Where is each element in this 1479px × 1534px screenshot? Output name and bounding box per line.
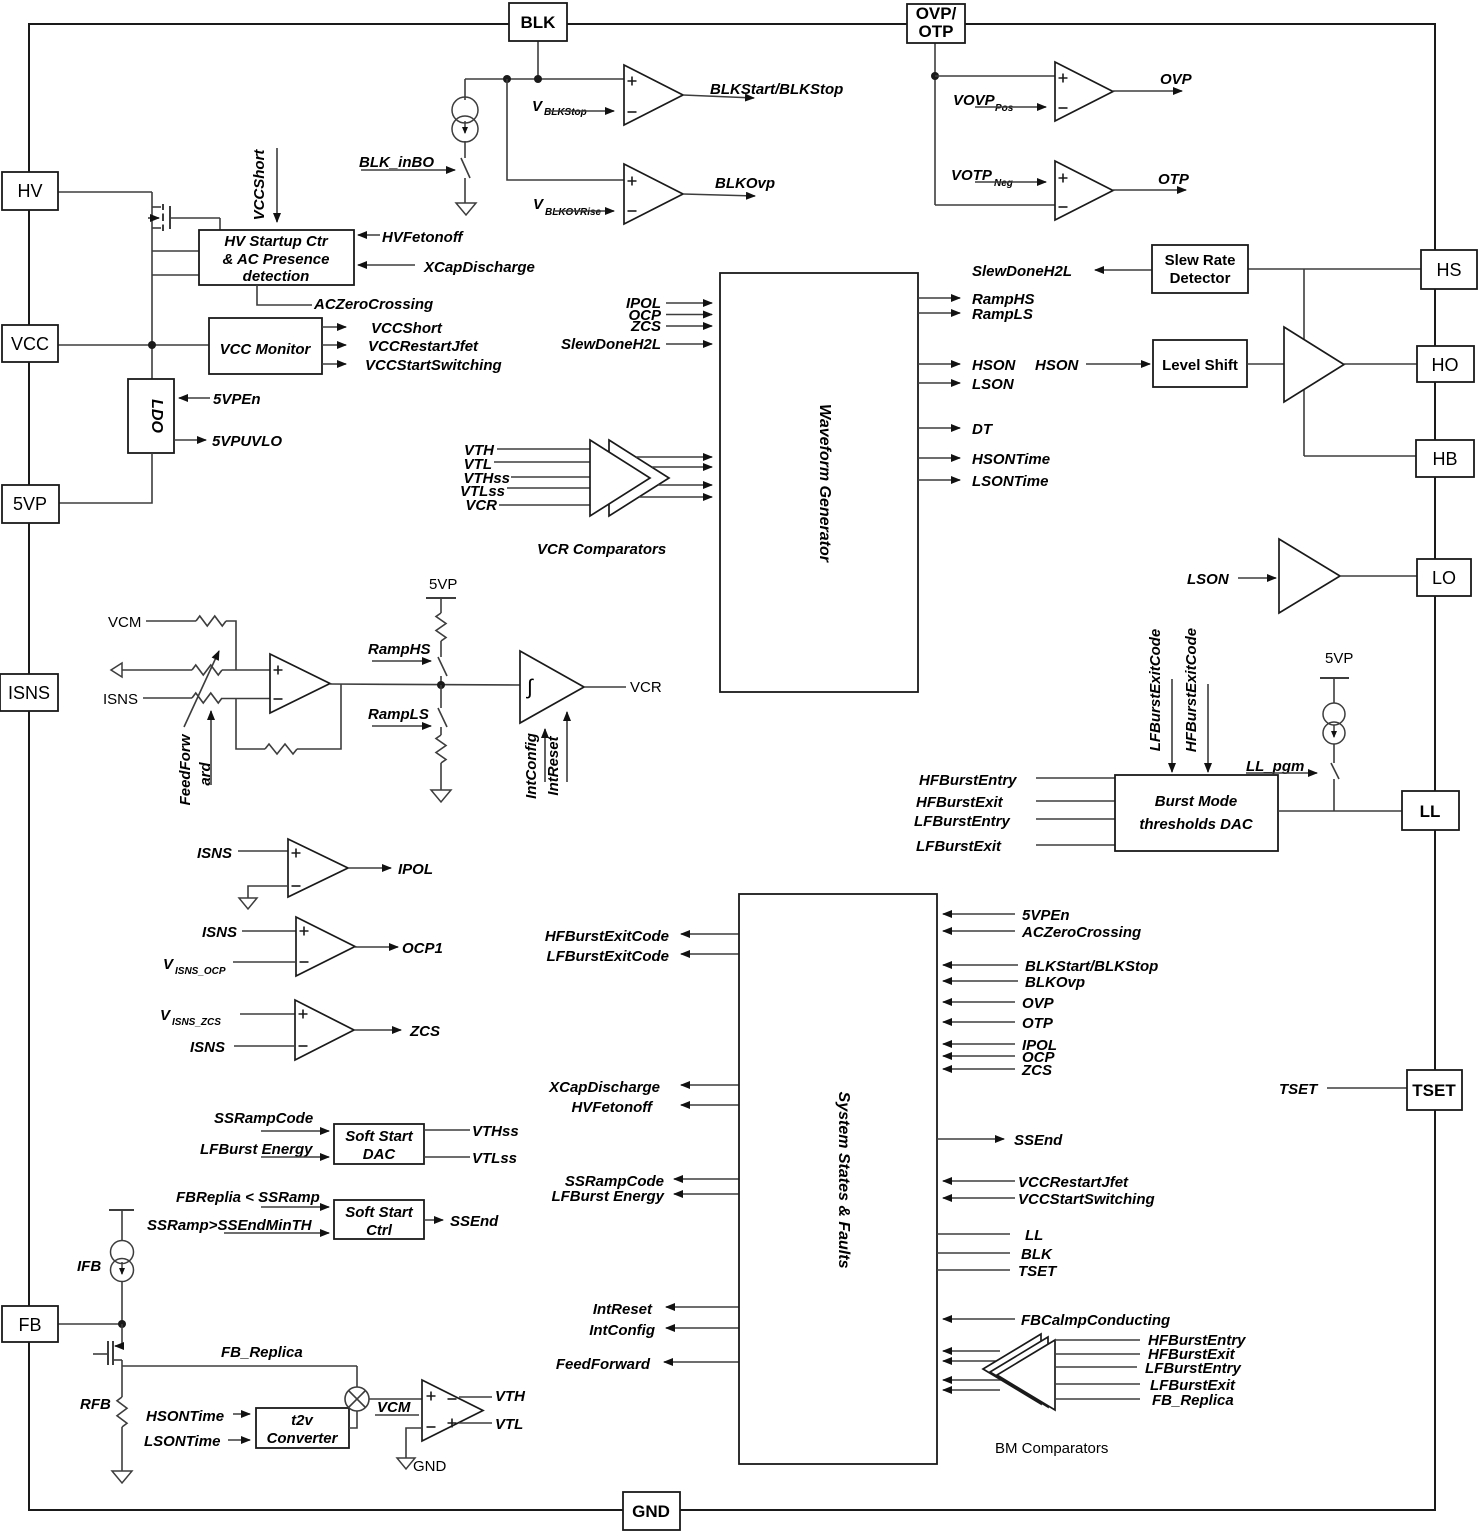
wire BLKOvp input [943,980,1018,982]
resistor R_VCM [196,616,226,626]
comparator U12 VTH VTL window [422,1380,483,1441]
junction BLK bus at pin drop [534,75,542,83]
wire FeedForward output [664,1361,739,1363]
wire ACZeroCrossing input [943,930,1015,932]
svg-text:HB: HB [1432,449,1457,469]
ground below BLK switch [456,203,476,215]
svg-text:GND: GND [413,1458,447,1475]
wire HO driver output to HO pin [1344,363,1417,365]
svg-text:IntReset: IntReset [545,735,562,795]
svg-text:ACZeroCrossing: ACZeroCrossing [1021,924,1141,941]
svg-text:Detector: Detector [1170,270,1231,287]
svg-text:VCCStartSwitching: VCCStartSwitching [365,357,502,374]
pin BLK [509,3,567,41]
svg-text:Converter: Converter [267,1430,339,1447]
label HVFetonoff input arrow [358,234,380,236]
svg-text:Burst Mode: Burst Mode [1155,793,1238,810]
wire OVP/OTP pin down [934,43,936,205]
wire rail to HV Startup block y=251 [152,250,199,252]
integrator U8 with integral sign [520,651,584,723]
svg-text:VCC: VCC [11,334,49,354]
wire to OTP comparator inverting input [935,204,1055,206]
wire LFBurstExitCode output [681,953,739,955]
wire branch down to BLKOvp comparator [507,79,624,180]
block LDO [128,379,174,453]
svg-text:BLKOVRise: BLKOVRise [545,207,602,218]
svg-text:XCapDischarge: XCapDischarge [548,1079,660,1096]
pin HV [2,172,58,210]
wire ZCS input [943,1068,1015,1070]
wire VCC Monitor output VCCStartSwitching [322,363,346,365]
svg-text:RampHS: RampHS [368,641,431,658]
svg-text:5VP: 5VP [1325,650,1353,667]
pin LL [1402,791,1459,830]
svg-text:ZCS: ZCS [1021,1062,1052,1079]
svg-text:LDO: LDO [148,399,165,433]
wire switch to LL bus [1333,779,1335,811]
wire ZCS output [354,1029,401,1031]
svg-text:5VP: 5VP [13,494,47,514]
block HV Startup Ctr and AC Presence detection [199,230,354,285]
svg-text:VCM: VCM [377,1399,411,1416]
wire IntConfig output [666,1327,739,1329]
svg-text:RampLS: RampLS [368,706,429,723]
wire IntReset output [666,1306,739,1308]
svg-text:LSON: LSON [972,376,1015,393]
wire switch to resistor [440,727,442,735]
svg-text:RampLS: RampLS [972,306,1033,323]
svg-text:HO: HO [1432,355,1459,375]
svg-text:OCP1: OCP1 [402,940,443,957]
wire IPOL input to waveform generator [666,302,712,304]
svg-text:BLKOvp: BLKOvp [1025,974,1085,991]
comparator U11 ZCS [295,1000,354,1060]
wire DT output [918,427,960,429]
svg-text:LFBurstExit: LFBurstExit [916,838,1002,855]
wire OTP output [1113,189,1186,191]
ground below RFB [112,1471,132,1483]
svg-text:5VPUVLO: 5VPUVLO [212,433,282,450]
wire noninverting path [122,669,192,671]
svg-text:VCCStartSwitching: VCCStartSwitching [1018,1191,1155,1208]
wire VTH output [459,1396,492,1398]
svg-text:BLK: BLK [1021,1246,1053,1263]
comparator U3 OVP [1055,62,1113,121]
wire current source to switch [464,141,466,158]
wire to OVP comparator non-inverting input [935,75,1055,77]
supply bar 5VP [426,597,456,599]
svg-text:Waveform Generator: Waveform Generator [816,404,833,563]
current source LL_pgm [1323,703,1345,725]
svg-text:ISNS: ISNS [190,1039,225,1056]
svg-text:VTH: VTH [495,1388,526,1405]
block Slew Rate Detector [1152,245,1248,293]
wire LO driver output to LO pin [1340,575,1417,577]
svg-text:ISNS_OCP: ISNS_OCP [175,966,226,977]
svg-text:BLKStart/BLKStop: BLKStart/BLKStop [710,81,843,98]
wire FB_Replica net [122,1365,357,1367]
block Burst Mode thresholds DAC [1115,775,1278,851]
svg-text:HSON: HSON [1035,357,1080,374]
wire rail to HV Startup block y=275 [152,274,199,276]
svg-text:LFBurstExitCode: LFBurstExitCode [1147,629,1164,752]
resistor RFB [117,1397,127,1427]
svg-text:FeedForw: FeedForw [177,733,194,805]
wire BLK pin down to bus [537,41,539,79]
wire bar to current source [121,1210,123,1241]
wire current source to FB node [121,1281,123,1324]
wire SSRampCode output [674,1178,739,1180]
wire ZCS input to waveform generator [666,325,712,327]
junction BLK bus at comparator branch [503,75,511,83]
wire LFBurstEntry input to BM comparators [1056,1366,1137,1368]
wire XCapDischarge output [681,1084,739,1086]
svg-text:IntConfig: IntConfig [589,1322,655,1339]
wire ISNS to resistor [143,697,192,699]
wire TSET input [937,1269,1010,1271]
wire OVP input [943,1001,1015,1003]
multiplier node [345,1387,369,1411]
svg-text:OTP: OTP [1022,1015,1054,1032]
svg-text:FBCalmpConducting: FBCalmpConducting [1021,1312,1170,1329]
wire resistor to opamp - [222,698,270,700]
junction FB node [118,1320,126,1328]
buffer U5 HO driver [1284,327,1344,402]
wire OVP output [1113,90,1182,92]
comparator stack VCR Comparators front triangle [590,440,650,516]
svg-text:HFBurstExit: HFBurstExit [916,794,1004,811]
svg-text:Level Shift: Level Shift [1162,357,1238,374]
feedback loop wire [236,699,265,749]
svg-text:TSET: TSET [1412,1081,1456,1100]
svg-text:Soft Start: Soft Start [345,1204,414,1221]
svg-text:Pos: Pos [995,103,1014,114]
wire LFBurst Energy output [674,1193,739,1195]
wire BLKStart/BLKStop output [683,95,754,98]
svg-text:5VPEn: 5VPEn [213,391,261,408]
wire ACZeroCrossing from block bottom [257,285,312,305]
resistor R_rampHS [436,613,446,641]
svg-text:LSON: LSON [1187,571,1230,588]
svg-text:HV Startup Ctr: HV Startup Ctr [224,233,329,250]
svg-text:GND: GND [632,1502,670,1521]
wire LSON output [918,382,960,384]
buffer U6 LO driver [1279,539,1340,613]
svg-text:VCCRestartJfet: VCCRestartJfet [1018,1174,1129,1191]
svg-text:RFB: RFB [80,1396,111,1413]
svg-text:OVP: OVP [1160,71,1193,88]
svg-text:VCCRestartJfet: VCCRestartJfet [368,338,479,355]
pin 5VP [2,485,59,523]
comparator stack BM Comparators [983,1334,1041,1404]
label XCapDischarge input arrow [358,264,415,266]
wire IPOL input [943,1043,1015,1045]
wire HS branch down to HB [1303,269,1305,456]
wire LFBurstExit input to BM comparators [1056,1383,1140,1385]
svg-text:HSON: HSON [972,357,1017,374]
svg-text:OVP/: OVP/ [916,4,957,23]
wire IPOL output [348,867,391,869]
supply bar 5VP LL [1320,677,1349,679]
wire OCP1 output [355,946,398,948]
comparator U10 OCP1 [296,917,355,976]
wire HFBurstEntry input to BM comparators [1056,1339,1140,1341]
svg-text:BLK_inBO: BLK_inBO [359,154,434,171]
ground at VTH comparator [397,1458,415,1469]
svg-text:Ctrl: Ctrl [366,1222,393,1239]
wire LDO output 5VPUVLO [174,439,206,441]
wire HS pin bus [1248,268,1421,270]
wire VCC Monitor output VCCRestartJfet [322,344,346,346]
wire VCC Monitor output VCCShort [322,326,346,328]
wire BLKStart/BLKStop input [943,964,1018,966]
wire VCCStartSwitching input [943,1197,1015,1199]
comparator stack VCR Comparators back triangle [609,440,669,516]
svg-text:BLK: BLK [521,13,557,32]
resistor R_rampLS [436,735,446,763]
switch RampHS [438,657,447,676]
svg-text:& AC Presence: & AC Presence [223,251,330,268]
pin HO [1417,346,1474,382]
wire HFBurstExit input to BM comparators [1056,1353,1140,1355]
wire SlewDoneH2L input to waveform generator [666,343,712,345]
svg-text:LL: LL [1420,802,1441,821]
pin LO [1417,559,1471,596]
svg-text:HFBurstExitCode: HFBurstExitCode [1183,628,1200,752]
svg-text:LL: LL [1025,1227,1043,1244]
svg-text:ISNS_ZCS: ISNS_ZCS [172,1017,221,1028]
wire VCR comparator outputs to waveform generator [636,456,712,458]
svg-text:LFBurst Energy: LFBurst Energy [551,1188,664,1205]
wire VCC pin to VCC Monitor [58,344,209,346]
wire VTLss output [424,1156,470,1158]
svg-text:FB_Replica: FB_Replica [221,1344,303,1361]
svg-text:HFBurstExitCode: HFBurstExitCode [545,928,669,945]
wire JFET rail vertical x=152 [151,192,153,379]
wire 5VP to resistor [440,598,442,613]
svg-text:LFBurstExitCode: LFBurstExitCode [546,948,669,965]
svg-text:OVP: OVP [1022,995,1055,1012]
wire VCCRestartJfet input [943,1180,1015,1182]
svg-text:5VPEn: 5VPEn [1022,907,1070,924]
svg-text:LO: LO [1432,568,1456,588]
svg-text:VCR: VCR [465,497,497,514]
svg-text:VCC Monitor: VCC Monitor [220,341,312,358]
wire current source to switch [1333,744,1335,763]
svg-text:SSEnd: SSEnd [1014,1132,1063,1149]
wire 5VP pin to LDO bottom [59,453,152,503]
wire multiplier to t2v [349,1411,357,1428]
ground at IPOL comparator [239,898,257,909]
svg-text:t2v: t2v [291,1412,314,1429]
svg-text:Neg: Neg [994,178,1013,189]
svg-text:LSONTime: LSONTime [972,473,1048,490]
wire HVFetonoff output [681,1104,739,1106]
wire RFB to ground [121,1427,123,1471]
wire resistor to ground [440,763,442,790]
svg-text:SSRamp>SSEndMinTH: SSRamp>SSEndMinTH [147,1217,313,1234]
wire integrator output VCR [584,686,626,688]
svg-text:SlewDoneH2L: SlewDoneH2L [972,263,1072,280]
svg-text:VTL: VTL [495,1416,523,1433]
svg-text:VCR: VCR [630,679,662,696]
svg-text:HS: HS [1436,260,1461,280]
svg-text:LFBurstEntry: LFBurstEntry [914,813,1010,830]
wire FB pin to node [58,1323,122,1325]
svg-text:XCapDischarge: XCapDischarge [423,259,535,276]
svg-text:BLKStop: BLKStop [544,107,587,118]
svg-text:Slew Rate: Slew Rate [1165,252,1236,269]
svg-text:ISNS: ISNS [103,691,138,708]
svg-text:IntReset: IntReset [593,1301,653,1318]
svg-text:VCM: VCM [108,614,141,631]
svg-text:TSET: TSET [1279,1081,1319,1098]
svg-text:OTP: OTP [919,22,954,41]
svg-text:HVFetonoff: HVFetonoff [571,1099,654,1116]
pin OVP/OTP [907,4,965,43]
wire HFBurstExitCode output [681,933,739,935]
feedback wire to output [297,684,341,749]
svg-text:HFBurstEntry: HFBurstEntry [919,772,1017,789]
pin HS [1421,250,1477,289]
svg-text:System States & Faults: System States & Faults [835,1092,852,1269]
svg-text:FBReplia < SSRamp: FBReplia < SSRamp [176,1189,320,1206]
svg-text:DAC: DAC [363,1146,397,1163]
wire RampLS output [918,312,960,314]
wire HSONTime output [918,457,960,459]
wire bar to current source [1333,678,1335,703]
resistor R_FB feedback [265,744,297,754]
wire FBCalmpConducting input [943,1318,1015,1320]
switch RampLS [438,708,447,727]
wire node down to RampLS switch [440,685,442,708]
wire VCM to resistor [146,620,196,622]
svg-text:TSET: TSET [1018,1263,1058,1280]
block Level Shift [1153,340,1247,387]
svg-text:LSONTime: LSONTime [144,1433,220,1450]
svg-text:ACZeroCrossing: ACZeroCrossing [313,296,433,313]
wire HSON output [918,363,960,365]
svg-text:FeedForward: FeedForward [556,1356,651,1373]
pin VCC [2,325,58,362]
wire LL input [937,1233,1010,1235]
transistor Q1 HV startup JFET [148,204,220,231]
comparator U9 IPOL [288,839,348,897]
block t2v Converter [256,1408,349,1448]
svg-text:IPOL: IPOL [398,861,433,878]
block System States and Faults [739,894,937,1464]
block Waveform Generator [720,273,918,692]
svg-text:thresholds DAC: thresholds DAC [1139,816,1254,833]
comparator U2 BLKOvp [624,164,683,224]
pin HB [1416,440,1474,477]
wire level shift to HO driver [1247,363,1284,365]
svg-text:OTP: OTP [1158,171,1190,188]
svg-text:ISNS: ISNS [8,683,50,703]
wire HB bus [1304,455,1416,457]
comparator U4 OTP [1055,161,1113,220]
wire BM comparator outputs into block [943,1350,1000,1352]
wire SSEnd output of soft start ctrl [424,1219,443,1221]
svg-text:Soft Start: Soft Start [345,1128,414,1145]
svg-text:SSEnd: SSEnd [450,1213,499,1230]
junction ramp node VCR [437,681,445,689]
junction OVP branch [931,72,939,80]
pin TSET [1407,1070,1462,1110]
svg-text:BM Comparators: BM Comparators [995,1440,1108,1457]
op-amp U7 current sense [270,654,330,713]
resistor R_ISNS variable [192,693,222,703]
variable resistor arrow diagonal [184,651,219,727]
svg-text:VTLss: VTLss [472,1150,517,1167]
svg-text:detection: detection [243,268,310,285]
svg-text:IntConfig: IntConfig [523,733,540,799]
wire opamp output to ramp node [330,684,520,685]
block VCC Monitor [209,318,322,374]
svg-text:LFBurst Energy: LFBurst Energy [200,1141,313,1158]
wire bus to current source [464,79,466,100]
svg-text:VCR Comparators: VCR Comparators [537,541,666,558]
wire HV pin to JFET rail [58,191,152,193]
wire OTP input [943,1021,1015,1023]
svg-text:HSONTime: HSONTime [146,1408,224,1425]
switch BLK_inBO [461,158,470,178]
svg-text:VTHss: VTHss [472,1123,519,1140]
block Soft Start DAC [334,1124,424,1164]
wire VCM resistor to summing node [226,621,236,670]
svg-text:BLKStart/BLKStop: BLKStart/BLKStop [1025,958,1158,975]
wire burst DAC to LL pin [1278,810,1402,812]
svg-text:ISNS: ISNS [197,845,232,862]
wire OCP input to waveform generator [666,314,712,316]
svg-text:ISNS: ISNS [202,924,237,941]
svg-text:HV: HV [17,181,42,201]
svg-text:BLKOvp: BLKOvp [715,175,775,192]
svg-text:HVFetonoff: HVFetonoff [382,229,465,246]
svg-text:HSONTime: HSONTime [972,451,1050,468]
svg-text:FB_Replica: FB_Replica [1152,1392,1234,1409]
pin FB [2,1306,58,1342]
svg-text:ZCS: ZCS [409,1023,440,1040]
svg-text:ZCS: ZCS [630,318,661,335]
junction VCC rail [148,341,156,349]
wire BLK input [937,1252,1010,1254]
svg-text:DT: DT [972,421,994,438]
wire FB_Replica down to multiplier [356,1366,358,1387]
resistor R_FF variable [192,665,222,675]
svg-text:IFB: IFB [77,1258,101,1275]
wire resistor to opamp + [222,669,270,671]
transistor Q2 FB replica follower [93,1324,122,1397]
svg-text:LFBurstEntry: LFBurstEntry [1145,1360,1241,1377]
wire SlewDoneH2L output of slew rate detector [1095,269,1152,271]
wire FB_Replica input to BM comparators [1056,1398,1140,1400]
svg-text:5VP: 5VP [429,576,457,593]
svg-text:VCCShort: VCCShort [251,149,268,221]
wire VTHss output [424,1129,470,1131]
wire SSEnd output to right [937,1138,1004,1140]
wire 5VPEn input [943,913,1015,915]
svg-text:FB: FB [18,1315,41,1335]
svg-text:SSRampCode: SSRampCode [214,1110,313,1127]
wire BLK bus horizontal [465,78,624,80]
label 5VPEn input arrow to LDO [179,397,210,399]
svg-text:SlewDoneH2L: SlewDoneH2L [561,336,661,353]
switch LL_pgm [1331,763,1339,779]
open arrow output to left [111,663,122,677]
current source I_BLK [452,97,478,123]
wire BLKOvp output [683,194,755,196]
